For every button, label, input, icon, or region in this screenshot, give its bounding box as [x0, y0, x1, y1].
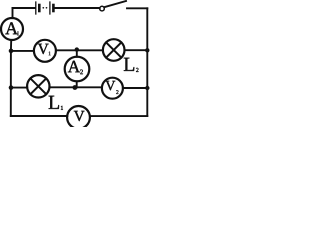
switch S pivot: [100, 6, 105, 11]
lamp L1 cross: [30, 78, 46, 94]
voltmeter V1 circle: [34, 40, 56, 62]
wire right rail: [146, 8, 148, 116]
wire row3: left rail to lamp L1: [11, 87, 27, 89]
label subscript 1 of voltmeter V1: [49, 52, 51, 56]
wire row2: lamp L2 to right rail: [125, 49, 148, 51]
node: left rail / row2 junction: [9, 49, 14, 54]
wire ammeter A1 to row2 junction, left rail down to bottom corner: [10, 40, 12, 116]
switch S lever (open): [104, 1, 126, 7]
label V of voltmeter V1: [38, 44, 49, 54]
voltmeter V circle (bottom): [67, 106, 90, 129]
node: right rail / row2 junction: [145, 48, 149, 52]
wire bottom-left corner to voltmeter V: [11, 115, 68, 117]
label A of ammeter A2: [68, 61, 80, 72]
label A of ammeter A1: [5, 22, 18, 34]
lamp L2 circle: [103, 39, 125, 61]
wire ammeter A2 branch: row2 junction down to A2: [76, 50, 78, 57]
wire switch to top-right corner: [127, 7, 147, 9]
label subscript 2 of lamp L2: [136, 68, 138, 72]
label V of voltmeter V2: [106, 81, 116, 90]
node: row2 / A2 branch junction: [75, 47, 79, 51]
battery cell 1 long plate: [35, 2, 37, 14]
label subscript 2 of ammeter A2: [80, 70, 83, 75]
wire battery to switch: [55, 7, 100, 9]
label L of lamp L2: [124, 58, 134, 71]
wire top-left corner to battery: [13, 7, 35, 9]
ammeter A1 circle: [1, 18, 23, 40]
voltmeter V2 circle: [102, 78, 123, 99]
lamp L2 cross: [106, 42, 121, 57]
battery cell 1 short thick plate: [38, 5, 41, 11]
wire top-left corner down to ammeter A1: [12, 8, 14, 18]
label subscript 1 of lamp L1: [61, 106, 63, 110]
ammeter A2 circle: [65, 57, 90, 82]
wire row2: left rail to voltmeter V1: [11, 50, 34, 52]
battery cell 2 long plate: [49, 2, 51, 14]
label subscript 2 of voltmeter V2: [116, 90, 118, 94]
label L of lamp L1: [49, 96, 59, 109]
label V of bottom voltmeter: [74, 111, 85, 121]
node: right rail / row3 junction: [145, 86, 149, 90]
wire voltmeter V to bottom-right corner: [90, 115, 147, 117]
node: row3 / A2 branch junction: [73, 85, 78, 90]
battery ellipsis dots: [42, 7, 47, 9]
wire ammeter A2 to row3 junction: [76, 81, 78, 87]
battery cell 2 short thick plate: [52, 5, 55, 11]
wire row2: voltmeter V1 to lamp L2: [56, 49, 103, 51]
label subscript 1 of ammeter A1: [17, 31, 19, 35]
wire row3: lamp L1 to voltmeter V2: [50, 86, 103, 88]
wire row3: voltmeter V2 to right rail: [123, 87, 147, 89]
lamp L1 circle: [27, 75, 49, 97]
node: left rail / row3 junction: [9, 85, 14, 90]
